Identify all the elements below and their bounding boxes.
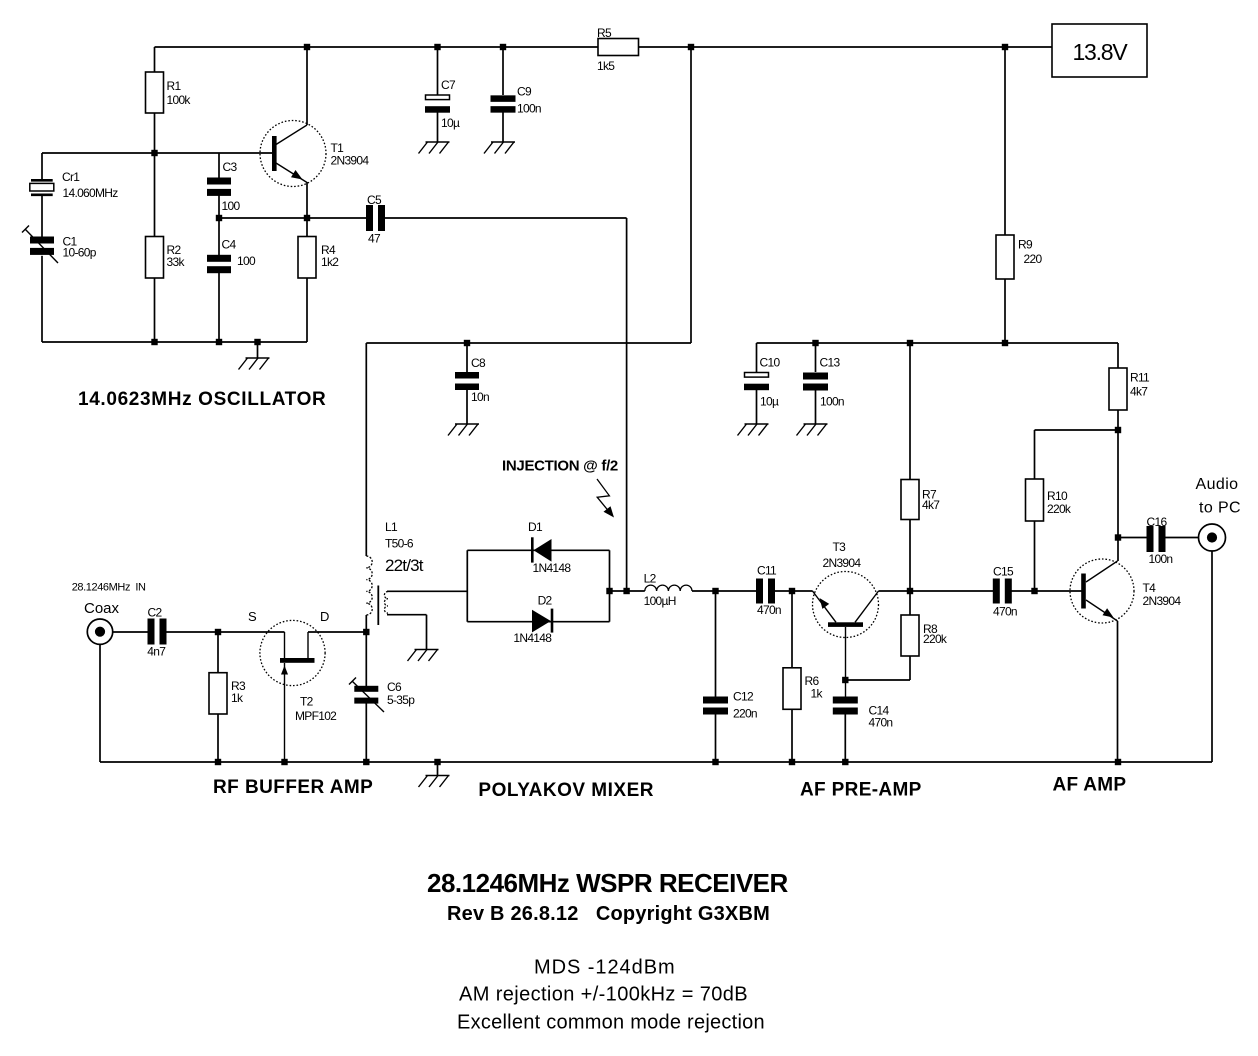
svg-text:2N3904: 2N3904 <box>823 556 862 570</box>
svg-text:1k: 1k <box>811 687 824 701</box>
svg-text:470n: 470n <box>993 605 1017 619</box>
svg-text:C9: C9 <box>517 85 532 99</box>
svg-text:10µ: 10µ <box>441 116 460 130</box>
svg-text:C6: C6 <box>387 680 402 694</box>
svg-text:4k7: 4k7 <box>922 498 940 512</box>
svg-text:5-35p: 5-35p <box>387 693 415 707</box>
svg-text:RF BUFFER AMP: RF BUFFER AMP <box>213 777 373 798</box>
svg-text:470n: 470n <box>869 716 893 730</box>
svg-text:T3: T3 <box>833 540 847 554</box>
svg-text:R10: R10 <box>1047 489 1068 503</box>
svg-text:C13: C13 <box>820 356 841 370</box>
svg-text:100n: 100n <box>1149 552 1173 566</box>
svg-text:Audio: Audio <box>1196 476 1239 493</box>
svg-text:Rev B 26.8.12 Copyright G3XB: Rev B 26.8.12 Copyright G3XBM <box>447 903 770 925</box>
svg-text:C12: C12 <box>733 690 754 704</box>
svg-text:100n: 100n <box>517 102 541 116</box>
svg-text:AM rejection +/-100kHz = 70dB: AM rejection +/-100kHz = 70dB <box>459 984 748 1006</box>
svg-text:1N4148: 1N4148 <box>533 561 572 575</box>
svg-text:1k2: 1k2 <box>321 255 339 269</box>
svg-text:4k7: 4k7 <box>1130 385 1148 399</box>
svg-text:INJECTION @ f/2: INJECTION @ f/2 <box>502 458 618 475</box>
svg-text:C2: C2 <box>148 606 163 620</box>
svg-text:470n: 470n <box>757 603 781 617</box>
svg-text:Cr1: Cr1 <box>62 170 80 184</box>
svg-text:14.060MHz: 14.060MHz <box>63 186 119 200</box>
svg-text:100µH: 100µH <box>644 594 676 608</box>
svg-text:4n7: 4n7 <box>147 645 166 659</box>
svg-text:1k: 1k <box>231 691 244 705</box>
svg-text:10µ: 10µ <box>760 395 779 409</box>
svg-text:MDS -124dBm: MDS -124dBm <box>534 957 676 979</box>
svg-text:28.1246MHz IN: 28.1246MHz IN <box>72 582 146 594</box>
svg-text:1k5: 1k5 <box>597 59 615 73</box>
svg-text:D1: D1 <box>528 520 543 534</box>
svg-text:R1: R1 <box>167 79 182 93</box>
svg-text:T4: T4 <box>1143 581 1157 595</box>
svg-text:L2: L2 <box>644 572 657 586</box>
svg-text:13.8V: 13.8V <box>1072 39 1128 65</box>
svg-text:2N3904: 2N3904 <box>331 154 370 168</box>
svg-text:33k: 33k <box>167 255 186 269</box>
svg-text:100: 100 <box>222 199 241 213</box>
svg-text:10-60p: 10-60p <box>63 246 97 260</box>
svg-text:to PC: to PC <box>1199 500 1241 517</box>
svg-text:Excellent common mode rejectio: Excellent common mode rejection <box>457 1012 765 1034</box>
svg-text:1N4148: 1N4148 <box>513 631 552 645</box>
svg-text:C3: C3 <box>223 160 238 174</box>
svg-text:MPF102: MPF102 <box>295 709 337 723</box>
svg-text:L1: L1 <box>385 520 398 534</box>
svg-text:S: S <box>248 609 257 624</box>
svg-text:220: 220 <box>1024 252 1043 266</box>
svg-text:C11: C11 <box>757 564 777 578</box>
svg-text:C4: C4 <box>222 238 237 252</box>
svg-text:AF AMP: AF AMP <box>1053 775 1127 796</box>
svg-text:C10: C10 <box>760 356 781 370</box>
svg-text:R9: R9 <box>1018 238 1033 252</box>
svg-text:R11: R11 <box>1130 371 1150 385</box>
svg-text:T2: T2 <box>300 695 314 709</box>
svg-text:14.0623MHz OSCILLATOR: 14.0623MHz OSCILLATOR <box>78 389 326 410</box>
svg-text:220k: 220k <box>1047 502 1072 516</box>
svg-text:C5: C5 <box>367 193 382 207</box>
svg-text:R5: R5 <box>597 26 612 40</box>
svg-text:T50-6: T50-6 <box>385 537 414 551</box>
svg-text:Coax: Coax <box>84 600 120 617</box>
svg-text:10n: 10n <box>471 390 489 404</box>
svg-text:22t/3t: 22t/3t <box>385 556 424 575</box>
svg-text:220n: 220n <box>733 707 757 721</box>
svg-text:D: D <box>320 609 329 624</box>
svg-text:220k: 220k <box>923 632 948 646</box>
svg-text:100k: 100k <box>167 93 192 107</box>
svg-text:100n: 100n <box>820 395 844 409</box>
svg-text:C16: C16 <box>1147 515 1168 529</box>
svg-text:28.1246MHz WSPR RECEIVER: 28.1246MHz WSPR RECEIVER <box>427 868 789 898</box>
svg-text:POLYAKOV MIXER: POLYAKOV MIXER <box>478 780 654 801</box>
svg-text:D2: D2 <box>538 594 553 608</box>
svg-text:C7: C7 <box>441 78 456 92</box>
svg-text:2N3904: 2N3904 <box>1143 594 1182 608</box>
svg-text:47: 47 <box>368 232 381 246</box>
svg-text:C15: C15 <box>993 565 1014 579</box>
svg-text:AF PRE-AMP: AF PRE-AMP <box>800 780 922 801</box>
svg-text:100: 100 <box>237 254 256 268</box>
svg-text:C8: C8 <box>471 356 486 370</box>
